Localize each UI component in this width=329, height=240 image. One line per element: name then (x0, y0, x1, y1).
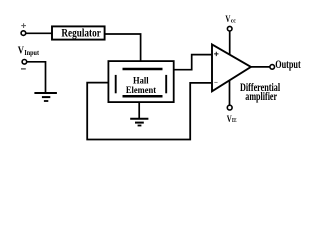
hall element H1 (108, 61, 173, 102)
svg-text:Input: Input (24, 49, 39, 57)
op-amp U2 (differential amplifier) (212, 44, 251, 91)
terminal + (Vinput positive) (21, 23, 26, 35)
terminal - (Vinput negative) (21, 60, 27, 69)
svg-text:Regulator: Regulator (61, 28, 100, 40)
node VEE (227, 105, 237, 125)
svg-text:Hall: Hall (133, 76, 149, 86)
wire (plus terminal to regulator) (26, 32, 52, 34)
ground (hall element) (130, 119, 148, 126)
svg-text:Output: Output (275, 59, 301, 71)
wire (hall element to ground) (138, 103, 140, 119)
wire (Vcc to op-amp) (229, 31, 231, 55)
wire (hall left terminal around bottom to inverting input) (87, 83, 211, 140)
node Output (270, 59, 301, 71)
regulator U1 (52, 26, 105, 39)
wire (minus terminal to ground) (27, 62, 46, 92)
wire (op-amp to VEE) (229, 81, 231, 106)
svg-text:EE: EE (232, 118, 237, 124)
svg-text:cc: cc (231, 18, 236, 25)
ground (input return) (34, 93, 57, 101)
svg-text:Element: Element (126, 86, 157, 96)
wire (regulator to hall element top) (105, 34, 141, 61)
wire (hall right terminal to non-inverting input) (175, 55, 212, 70)
node Vcc (225, 15, 236, 31)
wire (op-amp output) (251, 66, 270, 68)
label differential amplifier (240, 80, 281, 103)
svg-text:amplifier: amplifier (245, 89, 277, 103)
